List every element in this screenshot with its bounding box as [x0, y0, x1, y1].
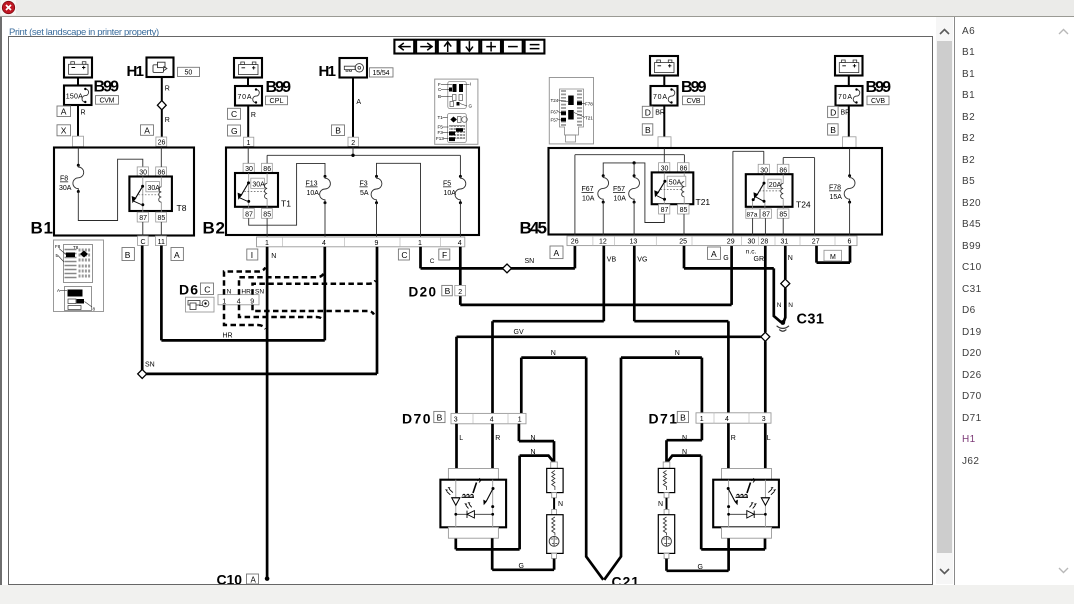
D71 seat heater icon [736, 478, 756, 497]
stub on B45 top (F78 feed) [843, 137, 857, 149]
svg-text:4: 4 [725, 416, 729, 423]
svg-text:F8: F8 [55, 244, 61, 249]
svg-text:F5: F5 [443, 181, 451, 188]
D71 module frame [713, 469, 779, 539]
wire R into D70 module [491, 424, 494, 480]
svg-text:150A: 150A [66, 93, 83, 100]
connector letter X [57, 125, 71, 136]
svg-text:6: 6 [848, 239, 852, 246]
wire N from B2 pin 1 down to C10 [267, 247, 276, 579]
svg-text:4: 4 [322, 240, 326, 247]
splice diamond on R wire [157, 101, 166, 110]
relay T21 [652, 163, 711, 215]
svg-text:F: F [442, 250, 447, 260]
D70 pin strip [451, 413, 526, 423]
svg-text:4: 4 [490, 417, 494, 424]
unit box B1 [31, 148, 195, 238]
splice diamond on SN line [503, 264, 512, 273]
wire T8 87 to C [142, 222, 144, 236]
svg-text:R: R [251, 112, 256, 119]
sidebar index [954, 17, 1074, 585]
location inset near H1 [435, 79, 478, 144]
svg-text:D70: D70 [402, 410, 431, 426]
svg-text:B99: B99 [866, 79, 892, 96]
switch unit D71 [649, 410, 689, 426]
label box 15/54 [370, 68, 394, 77]
svg-text:SN: SN [525, 258, 535, 265]
svg-text:9: 9 [375, 240, 379, 247]
fuse F13 10A [306, 175, 331, 237]
D70 wire labels below strip [459, 435, 535, 456]
svg-text:N: N [675, 350, 680, 357]
svg-text:R: R [731, 435, 736, 442]
pin 1 stub on B2 [243, 137, 253, 147]
unit box B2 [203, 148, 480, 238]
svg-text:SN: SN [255, 289, 264, 296]
D6 dashed wire pin4 upper [239, 274, 324, 295]
svg-text:30A: 30A [148, 185, 161, 192]
svg-text:A: A [356, 99, 361, 106]
fuse F8 30A in B1 [59, 148, 84, 194]
svg-text:C31: C31 [797, 312, 824, 328]
svg-text:H1: H1 [127, 63, 144, 80]
wire T1 87 loop to F13 [249, 163, 325, 225]
svg-text:15A: 15A [830, 194, 843, 201]
svg-text:11: 11 [158, 239, 165, 246]
D71 heat element thermal fuse [658, 462, 674, 498]
ground C10 [217, 572, 270, 588]
svg-text:3: 3 [762, 416, 766, 423]
H1 device (key 15/54) [319, 58, 368, 80]
svg-text:CVM: CVM [100, 98, 115, 105]
svg-text:B45: B45 [520, 219, 547, 238]
wire GR from B45 pin 28 [754, 246, 766, 332]
relay T1 [235, 163, 291, 218]
svg-text:87: 87 [245, 212, 253, 219]
battery stub on B1 [73, 136, 84, 147]
toolbar buttons [394, 40, 544, 54]
wire battery G1 to fuse [77, 78, 79, 86]
svg-text:HR: HR [241, 289, 251, 296]
wire N from B45 pin 25 to ground C31 [684, 246, 781, 322]
svg-text:50A: 50A [669, 179, 682, 186]
svg-text:30A: 30A [59, 185, 72, 192]
svg-text:27: 27 [812, 239, 820, 246]
svg-text:B: B [445, 286, 451, 296]
svg-text:87: 87 [139, 215, 147, 222]
svg-text:1: 1 [222, 298, 226, 305]
connector letter I under B2 [247, 249, 258, 260]
label box CVB [867, 96, 889, 105]
connector letter G [228, 125, 241, 136]
svg-text:B1: B1 [31, 219, 53, 238]
D6 pin strip [218, 289, 264, 306]
svg-text:B: B [645, 125, 651, 135]
svg-text:B99: B99 [681, 79, 707, 96]
svg-text:R: R [495, 435, 500, 442]
D71 switch contact [727, 487, 738, 508]
connector letter B [828, 124, 839, 135]
svg-text:29: 29 [727, 239, 735, 246]
wire R battery to B1 [78, 105, 86, 147]
battery G4 (feeds B45 F78) [835, 56, 863, 76]
svg-text:R: R [165, 86, 170, 93]
svg-text:HR: HR [223, 333, 233, 340]
svg-text:N: N [658, 501, 663, 508]
connector letter C under B2 pin 1 right [398, 249, 409, 260]
wire VB from B45 pin 12 to D70 pin 4 [493, 246, 617, 414]
svg-text:R: R [81, 110, 86, 117]
maxi-fuse 70A (B99 CVB) [651, 86, 678, 106]
label box CPL [266, 96, 288, 105]
svg-text:F78: F78 [585, 101, 593, 106]
connector letter D [828, 106, 839, 117]
svg-text:A: A [61, 107, 67, 117]
wire GR continues to D71 pin 3 [764, 341, 767, 413]
wire L into D71 module [764, 423, 767, 480]
svg-text:12: 12 [599, 239, 607, 246]
D71 internal link with diode [727, 502, 767, 518]
wire N from B45 pin 31 to ground C31 [784, 246, 793, 322]
svg-text:B: B [680, 413, 686, 423]
svg-text:31: 31 [781, 239, 789, 246]
wire N from D70 module to heat element connector [456, 456, 554, 550]
svg-text:B: B [335, 126, 341, 136]
internal wire battery stub to T21 30 [663, 148, 665, 162]
svg-text:n.c.: n.c. [746, 248, 757, 255]
svg-text:3: 3 [454, 417, 458, 424]
D6 dashed wire pin9 lower [253, 305, 375, 315]
D6 dashed wire pin4 lower [239, 305, 324, 321]
svg-text:70A: 70A [653, 94, 667, 101]
svg-text:T24: T24 [551, 98, 559, 103]
connector letter A under B45 pin 26 [550, 246, 563, 259]
svg-text:SN: SN [145, 362, 155, 369]
connector letter A under B1 [171, 248, 183, 261]
wire bus to T1 86 [266, 155, 268, 163]
wire G from B2 pin 4 right to B45 pin 29 via D20 [460, 246, 731, 305]
svg-text:B99: B99 [94, 79, 120, 96]
wire SN from B2 pin1 right to B45 pin 26 [421, 246, 575, 269]
svg-text:10A: 10A [614, 196, 627, 203]
stub on B45 top (T21 feed) [658, 137, 671, 149]
wires T24 pins to strip [753, 218, 784, 236]
wire BR to B45 F78 [841, 106, 851, 148]
svg-text:B: B [437, 413, 443, 423]
svg-text:70A: 70A [238, 94, 252, 101]
wire HR from B2 pin 4 to B1 pin 11 [161, 246, 324, 341]
svg-text:87a: 87a [747, 212, 758, 219]
svg-text:C10: C10 [217, 572, 243, 585]
internal bus from pin 2 [267, 146, 460, 157]
svg-text:T1: T1 [281, 199, 291, 209]
pin 26 stub on B1 [156, 137, 167, 147]
svg-text:VB: VB [607, 257, 617, 264]
svg-text:1: 1 [700, 416, 704, 423]
connector letter F under B2 pin 4 right [439, 249, 450, 260]
svg-text:N: N [551, 350, 556, 357]
svg-text:F57: F57 [613, 186, 625, 193]
wire B2 pin1 to T1 30 [247, 146, 249, 163]
svg-text:30: 30 [748, 239, 756, 246]
wire T21 85 to pin 25 [683, 214, 685, 236]
svg-text:C: C [430, 258, 435, 265]
svg-text:L: L [767, 435, 771, 442]
svg-text:C: C [204, 284, 210, 294]
svg-text:N: N [788, 255, 793, 262]
svg-text:A: A [711, 249, 717, 259]
svg-text:5A: 5A [360, 190, 369, 197]
svg-text:CVB: CVB [871, 98, 885, 105]
svg-text:D6: D6 [179, 282, 198, 298]
svg-text:26: 26 [571, 239, 579, 246]
svg-text:1: 1 [418, 240, 422, 247]
wire pin 1 (right) feed to F3 [377, 163, 421, 237]
svg-text:85: 85 [263, 212, 271, 219]
svg-text:F8: F8 [60, 176, 68, 183]
svg-text:4: 4 [237, 298, 241, 305]
svg-text:F3: F3 [360, 181, 368, 188]
svg-text:1: 1 [265, 240, 269, 247]
wire G from D70 module to heating element [492, 538, 554, 570]
svg-text:87: 87 [762, 212, 770, 219]
wire G from D71 heating element to module [667, 538, 729, 571]
H1 device (ign +50) [127, 58, 174, 81]
svg-text:CPL: CPL [270, 98, 284, 105]
svg-text:I: I [251, 250, 253, 260]
svg-text:20A: 20A [769, 182, 782, 189]
svg-text:D: D [645, 107, 651, 117]
svg-text:10A: 10A [582, 196, 595, 203]
svg-text:B: B [125, 250, 131, 260]
wire M bridge pin 27 to pin 6 [817, 246, 851, 263]
svg-text:9: 9 [250, 298, 254, 305]
svg-text:2: 2 [351, 140, 355, 147]
D71 heating element with thermostat [658, 510, 674, 559]
svg-text:85: 85 [779, 212, 787, 219]
svg-text:N: N [558, 501, 563, 508]
wire battery G4 to fuse [848, 76, 850, 87]
relay T24 [746, 164, 811, 218]
pin 2 stub on B2 [348, 137, 358, 147]
connector D6 [179, 282, 214, 298]
wire BR to B45 [655, 106, 665, 148]
fuse F67 10A [582, 174, 609, 236]
splice diamond GR/GV [761, 332, 770, 341]
wire N ground-U from D70 pin 1 to C21 [521, 350, 603, 580]
wire R battery G2 to B2 pin 1 [248, 106, 256, 148]
svg-text:F13: F13 [436, 136, 444, 141]
D71 pin strip [696, 413, 771, 423]
connector letter A [57, 106, 71, 117]
battery G1 (feeds B1) [64, 58, 92, 78]
svg-text:C: C [231, 109, 237, 119]
svg-text:VG: VG [637, 257, 647, 264]
svg-text:85: 85 [680, 207, 688, 214]
maxi-fuse 70A (B99 CPL) [235, 86, 262, 106]
wire T1 85 to pin 1 [266, 218, 268, 237]
svg-text:F57: F57 [551, 117, 559, 122]
svg-text:F67: F67 [582, 186, 594, 193]
fuse F5 10A [443, 175, 466, 237]
svg-text:87: 87 [661, 207, 669, 214]
D70 heat element thermal fuse [547, 462, 563, 498]
svg-text:B: B [830, 125, 836, 135]
window left edge [0, 17, 2, 604]
label box CVM [96, 96, 119, 105]
B45 pin strip [567, 236, 857, 246]
svg-text:30A: 30A [252, 181, 265, 188]
bottom strip [0, 585, 1074, 604]
wire F8 to relay T8 pin 30 [78, 159, 143, 220]
svg-text:BR: BR [841, 110, 851, 117]
svg-text:D71: D71 [649, 410, 678, 426]
svg-text:A: A [57, 288, 60, 293]
D71 illumination LED [761, 487, 776, 505]
D71 wire labels below strip [682, 435, 771, 456]
splice diamond SN at B1 [138, 369, 147, 378]
D70 switch contact [483, 487, 494, 508]
pin 11 stub [155, 236, 166, 246]
svg-text:N: N [788, 302, 793, 309]
D6 location icon [186, 297, 215, 312]
svg-text:2: 2 [458, 289, 462, 296]
D6 dashed wire pin9 upper [253, 281, 376, 295]
wire R into D71 module [727, 423, 730, 480]
svg-text:28: 28 [761, 239, 769, 246]
wire N ground-U from D71 pin 1 to C21 [604, 350, 702, 580]
svg-text:F67: F67 [551, 109, 559, 114]
svg-text:H1: H1 [319, 63, 336, 80]
connector letter D [642, 106, 653, 117]
svg-text:D20: D20 [409, 285, 436, 300]
svg-text:T21: T21 [585, 115, 593, 120]
D70 module frame [440, 469, 506, 539]
wire T8 85 to 11 [160, 222, 162, 236]
svg-text:F5: F5 [438, 125, 444, 130]
svg-text:M: M [830, 254, 836, 261]
svg-text:A: A [174, 250, 180, 260]
svg-text:F3: F3 [438, 130, 444, 135]
svg-text:D: D [830, 107, 836, 117]
svg-text:T24: T24 [796, 200, 811, 210]
svg-text:A: A [554, 248, 560, 258]
svg-text:4: 4 [458, 240, 462, 247]
wire N from D71 module to heat element connector [667, 456, 765, 550]
svg-text:70A: 70A [838, 94, 852, 101]
svg-text:F13: F13 [306, 181, 318, 188]
svg-text:1: 1 [247, 140, 251, 147]
battery G2 (feeds B2) [234, 58, 262, 78]
main vertical scrollbar [936, 17, 953, 584]
svg-text:G: G [231, 126, 238, 136]
svg-text:G: G [469, 104, 473, 109]
svg-text:N: N [227, 289, 232, 296]
fuse F57 10A [613, 174, 640, 236]
wire VG from B45 pin 13 to D71 pin 4 [634, 246, 728, 414]
svg-text:A: A [144, 125, 150, 135]
svg-text:25: 25 [679, 239, 687, 246]
connector letter B under B1 [122, 248, 134, 261]
D70 seat heater icon [462, 478, 482, 497]
D20 pin 2 box on wire [455, 285, 466, 295]
svg-text:13: 13 [630, 239, 638, 246]
pin C stub [138, 236, 149, 246]
wire R from H1 [162, 77, 170, 101]
wire pin 27 to T24 86 [783, 158, 814, 236]
svg-text:10A: 10A [307, 190, 320, 197]
svg-text:C: C [141, 239, 146, 246]
svg-text:T21: T21 [696, 197, 711, 207]
D70 illumination LED [445, 487, 460, 505]
wire T21 87 loop to fuses F67 F57 [603, 163, 664, 223]
D70 heating element with thermostat [547, 510, 563, 559]
svg-text:I: I [470, 82, 471, 87]
battery G3 (feeds B45 T21) [650, 56, 678, 76]
switch unit D70 [402, 410, 445, 426]
svg-text:26: 26 [158, 140, 166, 147]
maxi-fuse 150A (B99) [64, 86, 92, 106]
wire R continues to B1 pin 26 [162, 110, 170, 137]
wire A from H1 key to B2 pin 2 [353, 78, 361, 138]
wire N between elements [554, 498, 563, 510]
svg-text:T1: T1 [438, 115, 444, 120]
wire N between elements (D71) [658, 498, 667, 510]
svg-text:10A: 10A [444, 190, 457, 197]
svg-text:85: 85 [158, 215, 166, 222]
wire L into D70 module [455, 424, 458, 480]
fuse F3 5A [360, 175, 382, 237]
wire bus to F5 [459, 155, 461, 176]
D6 dashed wire pin1 upper [224, 268, 266, 295]
wire pin26 to T8 86 [160, 146, 162, 167]
D6 dashed wire pin1 lower [224, 305, 266, 329]
internal bus pin 26 to T21 86 [575, 155, 685, 236]
wire SN from B2 pin 9 to B1 pin C [142, 246, 377, 374]
wire battery G2 to fuse [247, 78, 249, 87]
svg-text:C: C [401, 250, 407, 260]
wire battery G3 to fuse [663, 76, 665, 87]
label box CVB [683, 96, 705, 105]
svg-text:B2: B2 [203, 219, 225, 238]
svg-text:50: 50 [185, 70, 193, 77]
D70 internal link with diode [454, 502, 494, 518]
fuse F78 15A [829, 148, 855, 236]
connector letter B (H1 key wire) [332, 125, 345, 136]
svg-text:GV: GV [514, 329, 524, 336]
label box 50 [178, 67, 200, 76]
svg-text:N: N [777, 302, 782, 309]
junction dot F57 feed [633, 161, 636, 176]
svg-text:G: G [698, 564, 703, 571]
diagram frame [8, 36, 933, 585]
svg-text:CVB: CVB [687, 98, 701, 105]
print link [9, 27, 159, 38]
svg-text:X: X [61, 126, 67, 136]
connector letter A under B45 pin 29 [708, 247, 721, 259]
svg-text:A: A [251, 576, 257, 585]
svg-text:F78: F78 [829, 185, 841, 192]
relay T8 [129, 167, 186, 222]
svg-text:G: G [519, 563, 524, 570]
splice diamond on N wire [781, 279, 790, 288]
svg-text:GR: GR [754, 256, 765, 263]
svg-text:N: N [271, 253, 276, 260]
wire N from D71 pin1 to heat element connector [667, 423, 702, 462]
connector letter C [228, 108, 241, 119]
window title bar [0, 0, 1074, 17]
unit box B45 [520, 148, 883, 238]
